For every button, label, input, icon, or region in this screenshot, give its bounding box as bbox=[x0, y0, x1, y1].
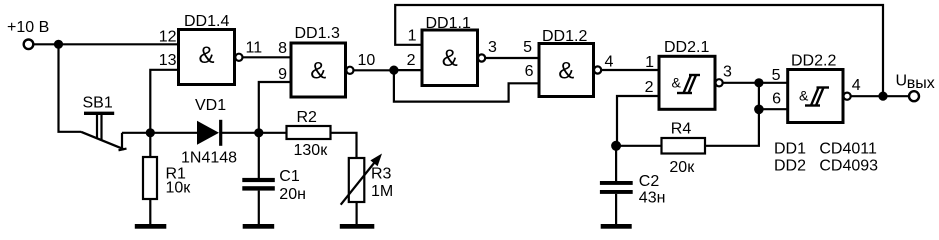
svg-text:20н: 20н bbox=[279, 186, 306, 203]
svg-text:2: 2 bbox=[645, 79, 654, 96]
wire bbox=[394, 69, 422, 71]
svg-text:12: 12 bbox=[159, 29, 177, 46]
wire bbox=[222, 132, 259, 134]
wire bbox=[243, 56, 292, 58]
svg-text:4: 4 bbox=[852, 77, 861, 94]
wire bbox=[331, 133, 357, 158]
svg-text:4: 4 bbox=[605, 54, 614, 71]
gate DD1.1 bbox=[422, 30, 478, 86]
wire bbox=[601, 69, 659, 71]
node F bbox=[754, 78, 763, 87]
svg-text:3: 3 bbox=[723, 64, 732, 81]
node H bbox=[878, 92, 887, 101]
wire bbox=[616, 145, 661, 147]
resistor R4 bbox=[662, 138, 706, 154]
wire bbox=[59, 44, 82, 132]
svg-text:&: & bbox=[672, 74, 682, 90]
switch SB1 bbox=[81, 113, 127, 150]
svg-text:вых: вых bbox=[907, 75, 935, 92]
svg-text:5: 5 bbox=[772, 67, 781, 84]
svg-text:DD1.1: DD1.1 bbox=[426, 15, 471, 32]
svg-text:DD1.2: DD1.2 bbox=[542, 28, 587, 45]
svg-text:&: & bbox=[799, 88, 809, 104]
node B bbox=[146, 128, 155, 137]
svg-text:1: 1 bbox=[408, 28, 417, 45]
svg-text:10: 10 bbox=[358, 52, 376, 69]
gate DD2.1 (schmitt) bbox=[659, 56, 715, 109]
ground bbox=[243, 224, 275, 229]
wire bbox=[258, 133, 260, 178]
svg-text:DD2 CD4093: DD2 CD4093 bbox=[774, 158, 878, 175]
svg-text:&: & bbox=[198, 42, 214, 69]
wire bbox=[150, 132, 197, 134]
wire bbox=[259, 82, 291, 133]
svg-text:6: 6 bbox=[772, 91, 781, 108]
wire bbox=[354, 69, 394, 71]
ground bbox=[135, 224, 167, 229]
svg-text:2: 2 bbox=[407, 52, 416, 69]
gate DD1.4 bbox=[179, 30, 235, 85]
svg-text:9: 9 bbox=[278, 66, 287, 83]
svg-text:10к: 10к bbox=[166, 180, 192, 197]
svg-text:130к: 130к bbox=[294, 142, 329, 159]
svg-text:DD1 CD4011: DD1 CD4011 bbox=[774, 141, 877, 158]
svg-text:R3: R3 bbox=[371, 166, 392, 183]
svg-text:R2: R2 bbox=[297, 109, 318, 126]
svg-text:8: 8 bbox=[278, 40, 287, 57]
svg-text:1M: 1M bbox=[371, 183, 393, 200]
capacitor C2 bbox=[600, 181, 633, 224]
inverter bubble DD1.2 bbox=[594, 66, 601, 73]
node E bbox=[611, 141, 621, 151]
resistor R1 bbox=[143, 133, 157, 224]
svg-text:VD1: VD1 bbox=[195, 97, 226, 114]
svg-text:SB1: SB1 bbox=[83, 95, 113, 112]
inverter bubble DD1.1 bbox=[478, 54, 485, 61]
gate DD1.2 bbox=[539, 44, 594, 97]
ground bbox=[601, 224, 632, 229]
node G bbox=[754, 105, 764, 115]
wire bbox=[759, 108, 788, 110]
terminal +10V bbox=[24, 40, 34, 50]
wire bbox=[59, 43, 179, 45]
wire bbox=[150, 70, 178, 133]
svg-text:DD1.4: DD1.4 bbox=[184, 13, 229, 30]
potentiometer R3 bbox=[341, 154, 382, 225]
resistor R2 bbox=[287, 126, 331, 139]
gate DD1.3 bbox=[291, 43, 346, 97]
wire bbox=[122, 132, 150, 134]
svg-text:6: 6 bbox=[525, 63, 534, 80]
svg-text:DD2.1: DD2.1 bbox=[664, 39, 709, 56]
inverter bubble DD2.2 bbox=[844, 93, 851, 100]
node D bbox=[389, 66, 398, 75]
node A (supply junction) bbox=[54, 40, 63, 49]
svg-text:1: 1 bbox=[645, 54, 654, 71]
svg-text:C1: C1 bbox=[279, 168, 300, 185]
inverter bubble DD1.4 bbox=[235, 54, 242, 61]
svg-text:&: & bbox=[310, 57, 326, 84]
wire (feedback) bbox=[395, 5, 883, 96]
svg-text:13: 13 bbox=[159, 52, 177, 69]
wire bbox=[259, 132, 287, 134]
wire bbox=[723, 82, 788, 84]
ground bbox=[340, 224, 375, 229]
terminal Uout bbox=[909, 91, 919, 101]
wire bbox=[34, 43, 59, 45]
gate DD2.2 (schmitt) bbox=[788, 70, 843, 123]
svg-text:C2: C2 bbox=[639, 173, 660, 190]
svg-text:&: & bbox=[442, 45, 458, 72]
svg-text:1N4148: 1N4148 bbox=[181, 150, 237, 167]
wire bbox=[485, 57, 539, 59]
svg-text:3: 3 bbox=[488, 39, 497, 56]
diode VD1 bbox=[197, 120, 221, 146]
svg-text:DD2.2: DD2.2 bbox=[791, 53, 836, 70]
svg-text:U: U bbox=[896, 73, 908, 90]
wire bbox=[617, 96, 659, 146]
wire bbox=[394, 70, 539, 102]
svg-text:5: 5 bbox=[523, 39, 532, 56]
capacitor C1 bbox=[242, 178, 274, 224]
svg-text:&: & bbox=[558, 57, 574, 84]
wire bbox=[705, 83, 759, 146]
inverter bubble DD1.3 bbox=[346, 67, 353, 74]
svg-text:+10 В: +10 В bbox=[7, 19, 49, 36]
wire bbox=[851, 95, 909, 97]
wire bbox=[615, 146, 617, 181]
svg-text:43н: 43н bbox=[639, 190, 666, 207]
svg-text:R4: R4 bbox=[671, 121, 692, 138]
node C bbox=[254, 128, 263, 137]
inverter bubble DD2.1 bbox=[716, 79, 723, 86]
svg-text:DD1.3: DD1.3 bbox=[295, 25, 340, 42]
svg-text:11: 11 bbox=[246, 40, 263, 57]
svg-text:20к: 20к bbox=[669, 159, 695, 176]
